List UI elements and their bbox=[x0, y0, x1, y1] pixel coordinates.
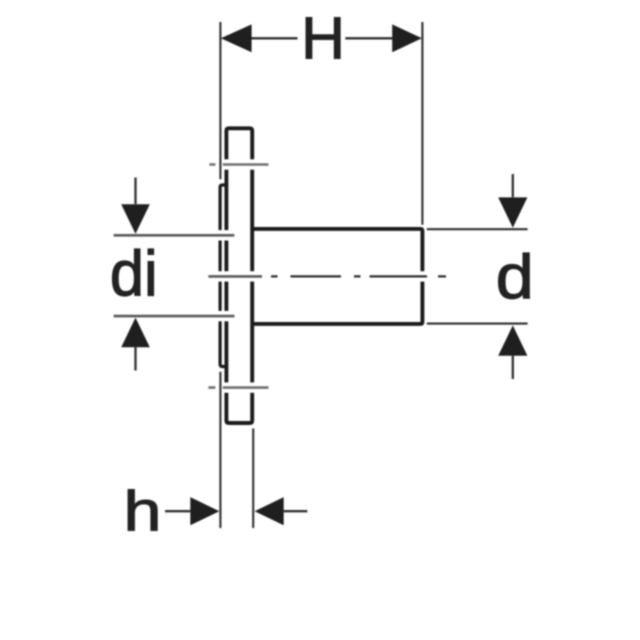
H dimension line bbox=[252, 37, 393, 39]
centerline gray segment through flange bbox=[208, 275, 262, 278]
white gaps in outlines where reference lines cross bbox=[217, 159, 427, 392]
crossing reference line lower bbox=[208, 386, 268, 389]
d dimension extension line bottom bbox=[427, 323, 528, 325]
H arrow right bbox=[392, 24, 422, 52]
di extension line top bbox=[114, 234, 235, 237]
d arrow bottom (pointing up) bbox=[498, 325, 527, 355]
extension line left lower segment bbox=[219, 372, 221, 528]
di extension line bottom bbox=[114, 315, 235, 318]
H arrow left bbox=[221, 24, 252, 52]
flange sealing lip (back face collar) bbox=[220, 185, 227, 367]
svg-text:H: H bbox=[301, 6, 345, 72]
svg-text:di: di bbox=[110, 238, 158, 310]
crossing reference line upper bbox=[209, 163, 268, 166]
svg-text:d: d bbox=[496, 243, 534, 312]
extension line right (pipe end) bbox=[421, 22, 423, 225]
d arrow top (pointing down) bbox=[512, 174, 514, 197]
extension line left (H/h reference, back face) upper segment bbox=[219, 22, 221, 179]
di arrow bottom (pointing up) bbox=[121, 318, 150, 348]
flange body outline bbox=[226, 128, 252, 423]
h dimension arrow right (pointing left) bbox=[255, 497, 284, 525]
d dimension extension line top bbox=[427, 228, 528, 230]
svg-text:h: h bbox=[124, 480, 162, 544]
h dimension arrow left (pointing right) bbox=[165, 510, 190, 512]
di arrow top (pointing down) bbox=[134, 178, 136, 205]
extension line h right (flange front face) bbox=[252, 429, 254, 529]
centerline dash-dot bbox=[271, 275, 446, 277]
pipe stub outline bbox=[252, 229, 422, 324]
